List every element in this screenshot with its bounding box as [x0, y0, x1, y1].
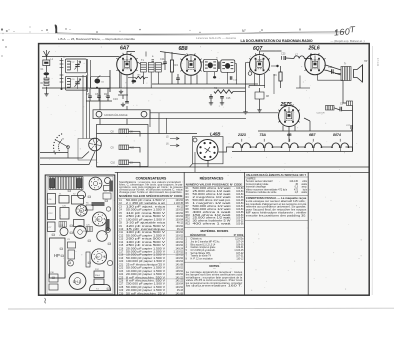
svg-text:C6: C6 — [95, 92, 99, 96]
svg-text:150 ohms 1/2 watt: 150 ohms 1/2 watt — [193, 214, 232, 217]
svg-text:25.000 ohms 1/2 watt: 25.000 ohms 1/2 watt — [193, 190, 232, 193]
svg-text:C11: C11 — [160, 57, 165, 61]
svg-text:6B: 6B — [287, 133, 292, 137]
svg-text:25.000 ohms 1/2 watt: 25.000 ohms 1/2 watt — [193, 217, 232, 220]
svg-text:Jeu de 2 transfos MF 472 kc: Jeu de 2 transfos MF 472 kc — [191, 240, 221, 243]
svg-text:104-08: 104-08 — [236, 200, 244, 202]
svg-text:HP: HP — [364, 60, 368, 63]
svg-text:103-54: 103-54 — [236, 191, 244, 193]
svg-text:NUMÉRO VALEUR PUISSANCE N°: NUMÉRO VALEUR PUISSANCE N° CODE — [186, 183, 243, 186]
svg-text:L.B.A. — 26, Boulevard Hélène,: L.B.A. — 26, Boulevard Hélène, — Reprodu… — [58, 37, 135, 41]
svg-text:500.000 ohms 1/2 watt: 500.000 ohms 1/2 watt — [193, 187, 232, 190]
svg-text:R11: R11 — [186, 218, 191, 220]
svg-text:103-56: 103-56 — [236, 224, 244, 226]
svg-text:141-08: 141-08 — [176, 292, 184, 295]
svg-text:watts: watts — [301, 191, 307, 194]
svg-text:CV 2×450 pF et démulti.: CV 2×450 pF et démulti. — [191, 249, 216, 252]
svg-text:111-03a: 111-03a — [235, 239, 244, 241]
svg-text:50.000 ohms 1/2 watt: 50.000 ohms 1/2 watt — [193, 193, 232, 196]
svg-text:25L6: 25L6 — [95, 275, 101, 277]
svg-text:400 ohms 1 watt: 400 ohms 1 watt — [193, 223, 232, 226]
svg-text:Licences GALLUS — dessins: Licences GALLUS — dessins — [196, 36, 237, 40]
svg-text:Cadran complet et glace: Cadran complet et glace — [191, 246, 217, 249]
svg-text:DÉSIGNATION: DÉSIGNATION — [190, 234, 206, 237]
svg-text:50 mF électrochim. 25 V: 50 mF électrochim. 25 V — [126, 292, 166, 295]
svg-text:Châssis nu: Châssis nu — [191, 239, 203, 241]
svg-text:CONDENSATEURS: CONDENSATEURS — [136, 177, 167, 181]
svg-text:107-22: 107-22 — [236, 253, 244, 255]
svg-text:ensuite les positions des padd: ensuite les positions des padding 30. — [246, 214, 307, 217]
svg-text:Bloc accord L1 L2 L3 L4: Bloc accord L1 L2 L3 L4 — [191, 243, 216, 246]
svg-text:6B8: 6B8 — [179, 46, 188, 52]
svg-text:C16: C16 — [113, 97, 118, 101]
svg-text:CV: CV — [59, 235, 63, 237]
svg-text:73A: 73A — [260, 133, 267, 137]
svg-text:17.1.46: 17.1.46 — [376, 58, 379, 67]
svg-text:N° CODE: N° CODE — [234, 235, 244, 237]
svg-text:H.-P. 12 cm excitation: H.-P. 12 cm excitation — [191, 258, 214, 261]
svg-text:500.000 ohms 1/2 watt: 500.000 ohms 1/2 watt — [193, 205, 232, 208]
svg-text:C23: C23 — [281, 53, 286, 56]
svg-text:Le montage apparaît du récepte: Le montage apparaît du récepteur : toute… — [186, 271, 244, 274]
svg-text:la documentation 160 T.: la documentation 160 T. — [186, 285, 243, 288]
svg-text:103-54: 103-54 — [236, 194, 244, 196]
svg-text:— (Dépôt exp. Bolivar et..): — (Dépôt exp. Bolivar et..) — [331, 39, 365, 43]
svg-text:6B7: 6B7 — [309, 133, 316, 137]
svg-text:160: 160 — [334, 26, 351, 37]
svg-text:R12: R12 — [186, 221, 191, 223]
svg-text:C30: C30 — [119, 292, 124, 295]
svg-text:103-54: 103-54 — [236, 206, 244, 208]
svg-text:d'usage pour l'unité et décroi: d'usage pour l'unité et décroissant les … — [119, 191, 183, 194]
svg-text:Self de filtrage CH1: Self de filtrage CH1 — [191, 252, 212, 255]
svg-text:500.000 ohms 1/2 watt pot.: 500.000 ohms 1/2 watt pot. — [193, 199, 231, 202]
svg-text:C24 CH: C24 CH — [317, 113, 325, 115]
svg-text:103-54: 103-54 — [236, 209, 244, 211]
svg-text:N°: N° — [242, 29, 246, 33]
svg-text:Puissance modulée de sortie: Puissance modulée de sortie — [246, 191, 277, 194]
svg-text:2 mégohms 1/2 watt: 2 mégohms 1/2 watt — [193, 196, 232, 199]
svg-text:Tr: Tr — [216, 57, 218, 60]
svg-text:R13: R13 — [186, 224, 191, 226]
svg-text:CADRAN ÉCLAIRAGE: CADRAN ÉCLAIRAGE — [104, 114, 128, 117]
svg-text:R4: R4 — [175, 63, 179, 67]
svg-text:107-14: 107-14 — [236, 241, 244, 243]
svg-text:MATÉRIEL DIVERS: MATÉRIEL DIVERS — [200, 228, 228, 233]
svg-text:110-12: 110-12 — [236, 259, 244, 261]
svg-text:103-54: 103-54 — [236, 197, 244, 199]
svg-text:6A7: 6A7 — [120, 46, 129, 52]
svg-text:NUMÉRO VALEUR SPÉCIFICATION: NUMÉRO VALEUR SPÉCIFICATION N° CODE — [119, 195, 183, 198]
svg-text:valve 25 Z5 à culot européen.: valve 25 Z5 à culot européen. Pour tous — [186, 279, 244, 282]
svg-text:LA DOCUMENTATION DU RADIOMAN-R: LA DOCUMENTATION DU RADIOMAN-RADIO — [241, 39, 313, 43]
svg-text:103-54: 103-54 — [236, 203, 244, 205]
svg-text:Transfo de sortie T4: Transfo de sortie T4 — [191, 255, 212, 258]
svg-text:métalliques ; exception faite: métalliques ; exception faite cependant … — [186, 276, 243, 279]
svg-text:C25: C25 — [328, 66, 333, 69]
svg-text:25L6: 25L6 — [308, 46, 320, 52]
svg-text:109-31: 109-31 — [236, 247, 244, 249]
svg-text:8074: 8074 — [333, 133, 341, 137]
svg-text:Tr: Tr — [344, 63, 346, 66]
svg-text:1 mégohm 1/2 watt: 1 mégohm 1/2 watt — [193, 202, 232, 205]
svg-text:—: — — [213, 267, 216, 270]
svg-text:R2: R2 — [104, 92, 108, 96]
svg-text:les renseignements complémenta: les renseignements complémentaires, cons… — [186, 282, 243, 285]
svg-text:500.000 ohms 1/2 watt: 500.000 ohms 1/2 watt — [193, 208, 232, 211]
svg-text:25Z5: 25Z5 — [280, 102, 292, 108]
svg-text:RÉSISTANCES: RÉSISTANCES — [200, 176, 225, 181]
svg-text:106-22: 106-22 — [236, 221, 244, 223]
svg-text:les lampes sont des séries amé: les lampes sont des séries américaines o… — [186, 274, 243, 277]
svg-text:30 ohms bobinée 5 W: 30 ohms bobinée 5 W — [193, 221, 232, 223]
svg-text:HP: HP — [54, 253, 60, 258]
svg-text:C15: C15 — [226, 97, 231, 100]
svg-text:103-54: 103-54 — [236, 218, 244, 220]
svg-text:103-54: 103-54 — [236, 215, 244, 217]
svg-text:103-56: 103-56 — [236, 212, 244, 214]
svg-text:108-05: 108-05 — [236, 244, 244, 246]
svg-text:1 103-45: 1 103-45 — [234, 250, 244, 252]
svg-text:2323: 2323 — [237, 133, 246, 137]
svg-text:400 ohms 1 watt: 400 ohms 1 watt — [193, 211, 232, 214]
svg-text:C10: C10 — [111, 162, 116, 165]
svg-text:107-31: 107-31 — [236, 256, 244, 258]
svg-text:L45B: L45B — [210, 132, 221, 137]
svg-text:103-54: 103-54 — [236, 188, 244, 190]
svg-text:R10: R10 — [186, 215, 191, 217]
